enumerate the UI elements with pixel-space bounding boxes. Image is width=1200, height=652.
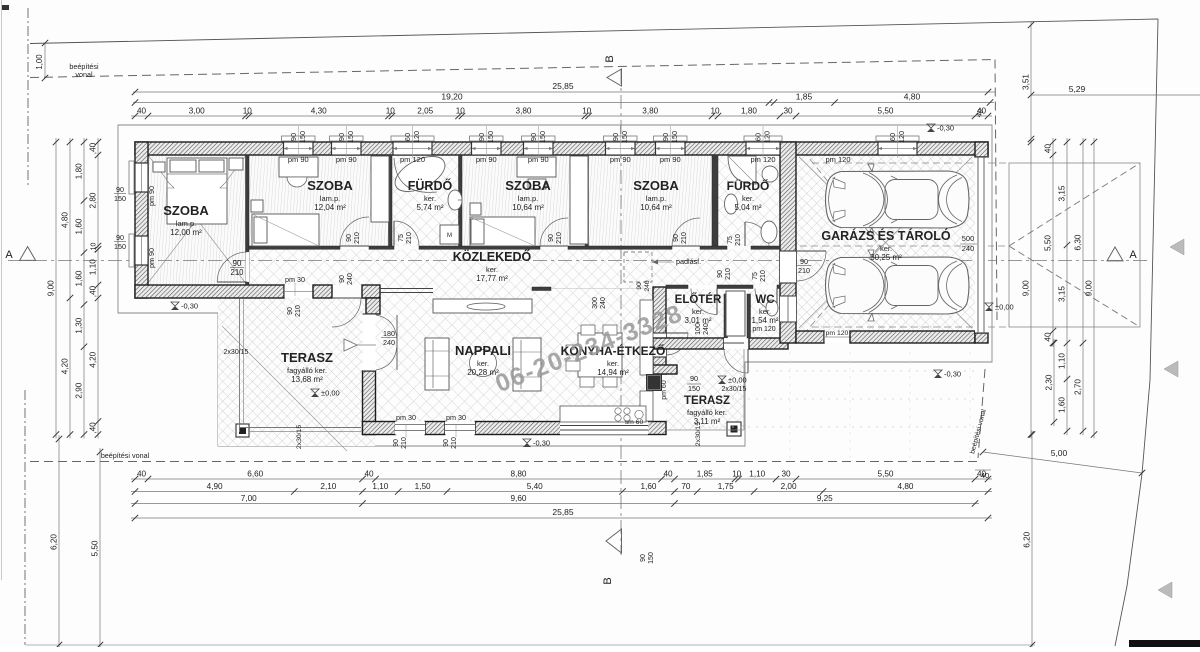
svg-text:210: 210 bbox=[401, 437, 408, 449]
svg-text:40: 40 bbox=[1044, 144, 1053, 154]
svg-text:90: 90 bbox=[611, 133, 620, 141]
svg-text:90: 90 bbox=[339, 275, 346, 283]
svg-text:5,50: 5,50 bbox=[878, 470, 894, 479]
svg-text:vonal: vonal bbox=[75, 70, 93, 79]
svg-text:3,01 m²: 3,01 m² bbox=[684, 316, 711, 325]
svg-text:2,05: 2,05 bbox=[417, 107, 433, 116]
svg-text:pm 120: pm 120 bbox=[825, 155, 850, 164]
svg-text:240: 240 bbox=[347, 273, 354, 285]
svg-text:WC: WC bbox=[755, 294, 774, 306]
svg-text:25,85: 25,85 bbox=[552, 507, 574, 517]
svg-text:25,85: 25,85 bbox=[552, 81, 574, 91]
svg-text:fagyálló ker.: fagyálló ker. bbox=[687, 408, 727, 417]
svg-text:pm 90: pm 90 bbox=[610, 155, 631, 164]
svg-text:SZOBA: SZOBA bbox=[633, 178, 679, 193]
svg-text:90: 90 bbox=[800, 257, 808, 266]
svg-text:90: 90 bbox=[443, 439, 450, 447]
svg-text:pm 30: pm 30 bbox=[446, 413, 466, 422]
svg-text:4,20: 4,20 bbox=[61, 358, 70, 374]
svg-text:6,60: 6,60 bbox=[247, 470, 263, 479]
svg-text:2,70: 2,70 bbox=[1074, 379, 1083, 395]
svg-text:90: 90 bbox=[289, 133, 298, 141]
svg-text:2,30: 2,30 bbox=[1045, 374, 1054, 390]
svg-text:90: 90 bbox=[717, 270, 724, 278]
svg-text:210: 210 bbox=[798, 266, 810, 275]
svg-text:5,50: 5,50 bbox=[1044, 235, 1053, 251]
svg-text:10: 10 bbox=[710, 107, 720, 116]
svg-text:17,77 m²: 17,77 m² bbox=[476, 274, 508, 283]
svg-text:210: 210 bbox=[681, 232, 688, 244]
svg-text:,10: ,10 bbox=[91, 243, 98, 253]
svg-text:90: 90 bbox=[690, 374, 698, 383]
svg-text:210: 210 bbox=[735, 234, 742, 246]
svg-text:9,00: 9,00 bbox=[47, 280, 56, 296]
svg-text:1,60: 1,60 bbox=[641, 482, 657, 491]
svg-text:90: 90 bbox=[529, 133, 538, 141]
svg-text:M: M bbox=[447, 233, 452, 239]
svg-text:30: 30 bbox=[781, 470, 791, 479]
svg-text:14,94 m²: 14,94 m² bbox=[597, 368, 629, 377]
svg-text:60: 60 bbox=[888, 133, 897, 141]
svg-text:ker.: ker. bbox=[477, 359, 489, 368]
svg-text:210: 210 bbox=[451, 437, 458, 449]
svg-text:210: 210 bbox=[725, 268, 732, 280]
svg-text:500: 500 bbox=[962, 234, 975, 243]
svg-text:2,00: 2,00 bbox=[781, 482, 797, 491]
svg-text:70: 70 bbox=[681, 482, 691, 491]
svg-text:-0,30: -0,30 bbox=[181, 302, 198, 311]
svg-text:90: 90 bbox=[116, 185, 124, 194]
svg-text:ker.: ker. bbox=[424, 194, 436, 203]
svg-text:KÖZLEKEDŐ: KÖZLEKEDŐ bbox=[453, 249, 532, 264]
svg-text:240: 240 bbox=[962, 244, 975, 253]
svg-text:lam.p.: lam.p. bbox=[320, 194, 340, 203]
svg-text:3,51: 3,51 bbox=[1022, 74, 1031, 90]
svg-text:150: 150 bbox=[346, 131, 355, 143]
svg-text:SZOBA: SZOBA bbox=[163, 203, 209, 218]
svg-text:1,85: 1,85 bbox=[796, 92, 813, 102]
svg-text:A: A bbox=[1129, 249, 1137, 261]
svg-text:40: 40 bbox=[981, 471, 989, 480]
svg-text:150: 150 bbox=[620, 131, 629, 143]
svg-text:19,20: 19,20 bbox=[441, 92, 463, 102]
svg-text:1,85: 1,85 bbox=[697, 470, 713, 479]
svg-text:2x30/15: 2x30/15 bbox=[722, 386, 747, 393]
svg-text:-0,30: -0,30 bbox=[937, 124, 954, 133]
svg-text:120: 120 bbox=[763, 131, 772, 143]
svg-text:150: 150 bbox=[688, 384, 700, 393]
svg-text:1,50: 1,50 bbox=[415, 482, 431, 491]
svg-text:lam.p.: lam.p. bbox=[176, 219, 196, 228]
svg-text:60: 60 bbox=[403, 133, 412, 141]
svg-text:FÜRDŐ: FÜRDŐ bbox=[727, 178, 770, 193]
svg-text:120: 120 bbox=[897, 131, 906, 143]
svg-text:3,80: 3,80 bbox=[642, 107, 658, 116]
svg-text:210: 210 bbox=[354, 232, 361, 244]
svg-text:pm 90: pm 90 bbox=[288, 155, 309, 164]
svg-text:2x30/15: 2x30/15 bbox=[224, 349, 249, 356]
svg-text:210: 210 bbox=[760, 270, 767, 282]
svg-text:pm 120: pm 120 bbox=[400, 155, 425, 164]
svg-text:180: 180 bbox=[383, 329, 395, 338]
svg-text:210: 210 bbox=[295, 305, 302, 317]
svg-text:10: 10 bbox=[732, 470, 742, 479]
svg-text:150: 150 bbox=[648, 552, 655, 564]
svg-text:150: 150 bbox=[298, 131, 307, 143]
svg-text:240: 240 bbox=[383, 338, 395, 347]
svg-text:8,80: 8,80 bbox=[511, 470, 527, 479]
svg-text:B: B bbox=[604, 55, 616, 62]
svg-text:10,64 m²: 10,64 m² bbox=[640, 203, 672, 212]
svg-text:10: 10 bbox=[386, 107, 396, 116]
svg-text:90: 90 bbox=[346, 234, 353, 242]
svg-text:ker.: ker. bbox=[742, 194, 754, 203]
svg-text:40: 40 bbox=[137, 107, 147, 116]
svg-text:pm 90: pm 90 bbox=[476, 155, 497, 164]
svg-text:120: 120 bbox=[412, 131, 421, 143]
svg-text:90: 90 bbox=[477, 133, 486, 141]
svg-text:SZOBA: SZOBA bbox=[307, 178, 353, 193]
svg-text:90: 90 bbox=[233, 259, 242, 268]
svg-text:3,80: 3,80 bbox=[516, 107, 532, 116]
svg-text:4,80: 4,80 bbox=[904, 92, 921, 102]
svg-text:13,68 m²: 13,68 m² bbox=[291, 375, 323, 384]
svg-text:1,54 m²: 1,54 m² bbox=[751, 316, 778, 325]
svg-text:30: 30 bbox=[783, 107, 793, 116]
svg-text:1,10: 1,10 bbox=[1058, 353, 1067, 369]
svg-text:A: A bbox=[5, 249, 13, 261]
svg-text:210: 210 bbox=[406, 232, 413, 244]
svg-text:ELŐTÉR: ELŐTÉR bbox=[675, 293, 722, 306]
svg-text:7,00: 7,00 bbox=[241, 494, 257, 503]
svg-text:10,64 m²: 10,64 m² bbox=[512, 203, 544, 212]
svg-text:1,80: 1,80 bbox=[741, 107, 757, 116]
svg-text:±0,00: ±0,00 bbox=[995, 303, 1014, 312]
svg-text:1,10: 1,10 bbox=[749, 470, 765, 479]
svg-text:5,50: 5,50 bbox=[878, 107, 894, 116]
svg-text:5,00: 5,00 bbox=[1051, 448, 1068, 458]
svg-text:3,00: 3,00 bbox=[189, 107, 205, 116]
svg-text:1,60: 1,60 bbox=[75, 218, 84, 234]
svg-text:5,50: 5,50 bbox=[91, 540, 100, 556]
svg-text:ker.: ker. bbox=[607, 359, 619, 368]
svg-text:1,10: 1,10 bbox=[372, 482, 388, 491]
svg-text:90: 90 bbox=[116, 233, 124, 242]
svg-text:150: 150 bbox=[114, 242, 126, 251]
svg-text:pm 90: pm 90 bbox=[660, 155, 681, 164]
svg-text:2x30/15: 2x30/15 bbox=[296, 425, 303, 449]
svg-text:ker.: ker. bbox=[880, 244, 892, 253]
svg-text:40: 40 bbox=[663, 470, 673, 479]
svg-text:,40: ,40 bbox=[89, 142, 98, 154]
svg-text:SZOBA: SZOBA bbox=[505, 178, 551, 193]
svg-text:1,10: 1,10 bbox=[89, 259, 98, 275]
svg-text:210: 210 bbox=[230, 268, 244, 277]
svg-text:pm 90: pm 90 bbox=[147, 186, 156, 206]
svg-text:90: 90 bbox=[393, 439, 400, 447]
svg-text:40: 40 bbox=[364, 470, 374, 479]
svg-text:90: 90 bbox=[548, 234, 555, 242]
svg-text:150: 150 bbox=[670, 131, 679, 143]
svg-text:75: 75 bbox=[752, 272, 759, 280]
svg-text:12,04 m²: 12,04 m² bbox=[314, 203, 346, 212]
svg-text:40: 40 bbox=[137, 470, 147, 479]
svg-text:240: 240 bbox=[600, 297, 607, 309]
svg-text:150: 150 bbox=[486, 131, 495, 143]
svg-text:GARÁZS ÉS TÁROLÓ: GARÁZS ÉS TÁROLÓ bbox=[821, 228, 950, 243]
svg-text:90: 90 bbox=[661, 133, 670, 141]
svg-text:ker.: ker. bbox=[759, 307, 771, 316]
svg-text:75: 75 bbox=[727, 236, 734, 244]
svg-text:6,20: 6,20 bbox=[50, 534, 59, 550]
svg-text:9,00: 9,00 bbox=[1085, 280, 1094, 296]
svg-text:pm 90: pm 90 bbox=[336, 155, 357, 164]
svg-text:1,80: 1,80 bbox=[75, 163, 84, 179]
svg-text:pm 30: pm 30 bbox=[396, 413, 416, 422]
svg-text:pm 30: pm 30 bbox=[285, 275, 305, 284]
svg-text:5,29: 5,29 bbox=[1069, 84, 1086, 94]
svg-text:12,00 m²: 12,00 m² bbox=[170, 228, 202, 237]
svg-text:4,30: 4,30 bbox=[311, 107, 327, 116]
svg-text:TERASZ: TERASZ bbox=[684, 395, 730, 407]
svg-text:lam.p.: lam.p. bbox=[518, 194, 538, 203]
svg-text:padlásf.: padlásf. bbox=[676, 257, 701, 266]
svg-text:90: 90 bbox=[337, 133, 346, 141]
svg-text:9,25: 9,25 bbox=[817, 494, 833, 503]
svg-text:4,80: 4,80 bbox=[898, 482, 914, 491]
svg-text:pm 120: pm 120 bbox=[752, 326, 775, 333]
svg-text:40: 40 bbox=[1044, 332, 1053, 342]
svg-text:90: 90 bbox=[636, 282, 643, 290]
svg-text:pm 90: pm 90 bbox=[147, 248, 156, 268]
svg-text:9,00: 9,00 bbox=[1022, 280, 1031, 296]
svg-text:pm 60: pm 60 bbox=[661, 380, 668, 400]
svg-text:6,30: 6,30 bbox=[1074, 234, 1083, 250]
svg-text:1,30: 1,30 bbox=[75, 317, 84, 333]
svg-text:1,00: 1,00 bbox=[35, 54, 44, 70]
svg-text:pm 120: pm 120 bbox=[826, 330, 849, 337]
svg-text:5,40: 5,40 bbox=[527, 482, 543, 491]
svg-text:FÜRDŐ: FÜRDŐ bbox=[408, 178, 453, 193]
svg-text:3,15: 3,15 bbox=[1058, 185, 1067, 201]
svg-text:TERASZ: TERASZ bbox=[281, 350, 333, 365]
svg-text:beépítési vonal: beépítési vonal bbox=[101, 451, 150, 460]
svg-text:10: 10 bbox=[243, 107, 253, 116]
svg-text:4,90: 4,90 bbox=[207, 482, 223, 491]
svg-text:5,74 m²: 5,74 m² bbox=[416, 203, 443, 212]
svg-text:1,75: 1,75 bbox=[718, 482, 734, 491]
svg-text:ker.: ker. bbox=[692, 307, 704, 316]
svg-text:fagyálló ker.: fagyálló ker. bbox=[287, 366, 327, 375]
svg-text:4,80: 4,80 bbox=[61, 212, 70, 228]
svg-text:±0,00: ±0,00 bbox=[728, 376, 747, 385]
svg-text:60: 60 bbox=[754, 133, 763, 141]
svg-text:75: 75 bbox=[398, 234, 405, 242]
svg-text:240: 240 bbox=[644, 280, 651, 292]
svg-text:5,04 m²: 5,04 m² bbox=[734, 203, 761, 212]
svg-text:B: B bbox=[602, 577, 614, 584]
svg-text:-0,30: -0,30 bbox=[944, 370, 961, 379]
svg-text:2,80: 2,80 bbox=[89, 192, 98, 208]
svg-text:sm 60: sm 60 bbox=[625, 419, 644, 426]
svg-text:10: 10 bbox=[582, 107, 592, 116]
svg-text:ker.: ker. bbox=[486, 265, 498, 274]
svg-text:210: 210 bbox=[556, 232, 563, 244]
svg-text:pm 90: pm 90 bbox=[528, 155, 549, 164]
svg-text:±0,00: ±0,00 bbox=[321, 389, 340, 398]
svg-text:2,10: 2,10 bbox=[320, 482, 336, 491]
svg-text:30,25 m²: 30,25 m² bbox=[870, 253, 902, 262]
svg-text:lam.p.: lam.p. bbox=[646, 194, 666, 203]
svg-text:90: 90 bbox=[640, 554, 647, 562]
svg-text:150: 150 bbox=[114, 194, 126, 203]
svg-text:90: 90 bbox=[287, 307, 294, 315]
svg-text:1,60: 1,60 bbox=[75, 270, 84, 286]
svg-text:pm 120: pm 120 bbox=[750, 155, 775, 164]
svg-text:NAPPALI: NAPPALI bbox=[455, 343, 511, 358]
svg-text:3,11 m²: 3,11 m² bbox=[694, 417, 721, 426]
svg-text:1,60: 1,60 bbox=[1058, 397, 1067, 413]
svg-text:10: 10 bbox=[456, 107, 466, 116]
svg-text:6,20: 6,20 bbox=[1023, 531, 1032, 547]
svg-text:,40: ,40 bbox=[89, 422, 98, 434]
svg-text:-0,30: -0,30 bbox=[533, 439, 550, 448]
svg-text:4,20: 4,20 bbox=[89, 351, 98, 367]
svg-text:300: 300 bbox=[592, 297, 599, 309]
svg-text:2,90: 2,90 bbox=[75, 382, 84, 398]
svg-text:9,60: 9,60 bbox=[511, 494, 527, 503]
svg-text:3,15: 3,15 bbox=[1058, 286, 1067, 302]
svg-text:150: 150 bbox=[538, 131, 547, 143]
svg-text:,40: ,40 bbox=[89, 285, 98, 297]
svg-text:90: 90 bbox=[673, 234, 680, 242]
